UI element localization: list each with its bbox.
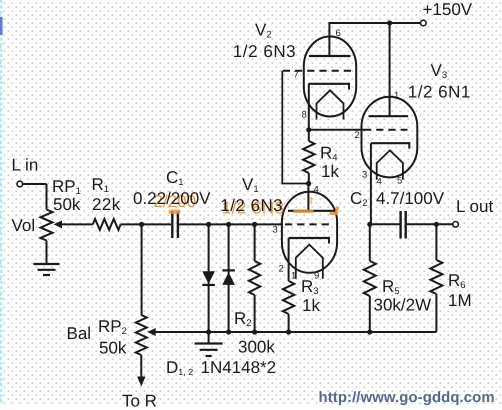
svg-text:+150V: +150V [423,0,473,19]
svg-text:1/2 6N3: 1/2 6N3 [233,42,296,61]
capacitor C2 [399,211,401,239]
op V3 envelope [362,97,418,178]
wire C1 to V1 grid [179,223,282,225]
svg-text:3: 3 [362,170,367,181]
svg-text:5: 5 [397,176,402,187]
wire node A down to RP2 [141,224,143,315]
node D1 bottom [206,329,211,334]
svg-text:1M: 1M [448,291,472,310]
svg-text:1: 1 [394,91,399,102]
wire bottom rail [155,331,437,333]
svg-text:2: 2 [279,264,284,275]
V1 plate [288,210,336,212]
resistor R6 [435,224,437,260]
svg-text:L in: L in [12,156,39,175]
node D2 bottom [226,329,231,334]
svg-text:Bal: Bal [67,324,92,343]
node R2 bottom [252,329,257,334]
RP2 output arrow [137,377,145,387]
op V2 envelope [304,37,356,117]
wire to C2 [370,223,400,225]
V3 heater [377,150,403,179]
node V1 plate junction [306,181,311,186]
potentiometer RP2 [136,315,147,355]
terminal L in [17,181,23,187]
wire V2 plate lead [328,22,330,56]
svg-text:22k: 22k [92,195,121,214]
svg-text:4: 4 [377,177,382,188]
node V2 cathode junction [306,127,311,132]
wire V3 plate lead [389,23,391,116]
resistor R1 [93,219,121,230]
RP2 wiper arrow [147,328,155,336]
op V1 envelope [282,192,337,273]
wire R1 to node A [121,223,171,225]
svg-text:9: 9 [314,271,319,282]
node D2 top [226,222,231,227]
wire V3 cathode lead [370,143,372,225]
node R5 bottom [367,329,372,334]
svg-text:50k: 50k [99,339,127,358]
svg-text:4.7/100V: 4.7/100V [376,189,445,208]
V2 grid [283,70,352,72]
svg-text:1N4148*2: 1N4148*2 [201,358,277,377]
resistor R2 [254,224,256,261]
wire to V3 grid [309,129,364,131]
wire D2 branch [228,224,230,332]
svg-text:To R: To R [122,391,157,410]
wire V2 cathode lead [308,84,310,130]
potentiometer RP1 [41,210,53,241]
node C2 left [367,222,372,227]
resistor R4 [308,130,310,141]
svg-text:300k: 300k [238,338,275,357]
node R6 top [434,222,439,227]
node R2 top [252,222,257,227]
left edge cyan scrollbar artifact [0,0,2,404]
RP1 wiper arrow [54,220,62,228]
svg-text:50k: 50k [53,195,81,214]
annotation orange mark V1 plate [294,210,314,213]
svg-text:7: 7 [294,70,299,81]
V2 cathode [309,83,349,85]
wire C2 to output [407,223,453,225]
svg-text:1: 1 [291,271,296,282]
wire D1 branch [208,224,210,332]
resistor R3 [288,238,290,281]
capacitor C1 [171,211,173,238]
V3 plate [369,115,409,117]
svg-text:3: 3 [273,225,278,236]
svg-text:1/2 6N1: 1/2 6N1 [408,83,471,102]
svg-text:8: 8 [302,110,307,121]
wire V2 grid to V1 plate [282,71,308,184]
svg-text:1k: 1k [302,296,320,315]
terminal L out [453,222,459,228]
svg-text:0.22/200V: 0.22/200V [133,189,211,208]
wire input [23,183,47,185]
V2 heater [317,90,344,119]
node A [139,222,144,227]
V1 grid [285,223,333,225]
node V3 plate junction [387,20,392,25]
diode D1 [202,271,215,284]
svg-text:http://www.go-gddq.com: http://www.go-gddq.com [319,390,495,406]
resistor R5 [369,224,371,261]
svg-text:2: 2 [355,130,360,141]
terminal +150V [421,20,427,26]
wire V1 plate lead [307,184,309,211]
wire +150V rail [329,22,420,24]
node D1 top [206,222,211,227]
V3 cathode [371,142,409,144]
V2 plate [309,55,351,57]
svg-text:Vol: Vol [12,216,36,235]
svg-text:1/2 6N3: 1/2 6N3 [220,196,283,215]
svg-text:L out: L out [456,197,493,216]
V1 heater [296,245,323,279]
ground (main) [208,332,210,344]
svg-text:6: 6 [336,28,341,39]
V1 cathode [289,237,329,239]
annotation orange mark C1 [169,210,181,215]
diode D2 [222,269,235,271]
V3 grid [364,129,408,131]
svg-text:30k/2W: 30k/2W [374,296,432,315]
ground (RP1) [34,263,60,265]
node R3 bottom [286,329,291,334]
svg-text:1k: 1k [321,162,339,181]
